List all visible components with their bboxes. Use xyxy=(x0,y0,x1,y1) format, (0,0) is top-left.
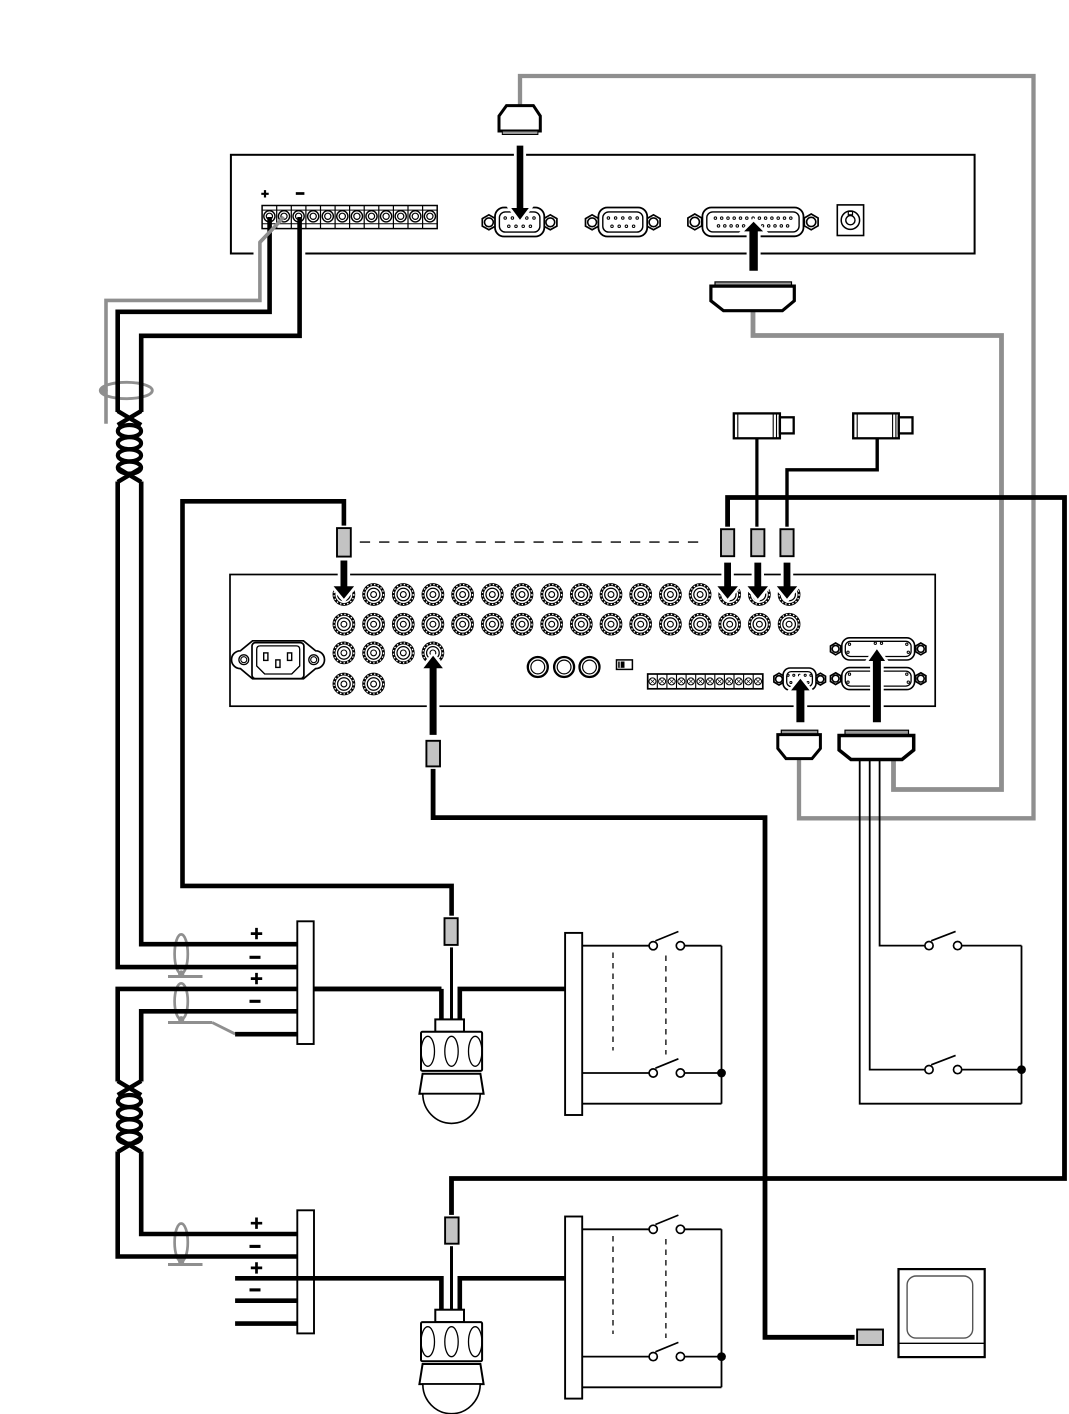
arrow: keyboard cable into recorder DB9 #1 xyxy=(511,146,529,220)
camera A (box camera) xyxy=(734,413,794,438)
recorder DB9 connector #2 xyxy=(598,208,647,237)
label + terminal block 2 row 1 xyxy=(251,1218,262,1229)
alarm box 3 dashed continuation lines xyxy=(612,1236,614,1334)
wire: right branch from camera 2 to alarm box 3 xyxy=(460,1278,565,1311)
label - terminal block 2 row 2 xyxy=(250,1245,261,1248)
hex standoff right of mux DB25 #1 xyxy=(916,643,926,655)
hex standoff left of mux DB25 #1 xyxy=(831,643,841,655)
mux BNC monitor row 3 (4 jacks) xyxy=(334,643,443,663)
data pair left wire down to terminal block 1 '-' xyxy=(118,482,298,968)
arrow: camera A video into mux BNC input 15 xyxy=(748,563,769,599)
camera 1 data branch down into dome camera 1 xyxy=(439,989,444,1022)
gray cable: recorder DB9 to multiplexer DB9 hood xyxy=(520,76,1034,818)
alarm box 3 wire row 2 xyxy=(582,1356,717,1358)
hex standoff right of mux DB25 #2 xyxy=(916,673,926,685)
junction dot alarm box 1 xyxy=(717,1069,726,1078)
label - terminal block 1 row 2 xyxy=(250,956,261,959)
BNC plug at mux input 1 xyxy=(337,528,351,557)
dome camera 2 pigtail below plug xyxy=(450,1243,453,1311)
hex standoff right of recorder DB25 xyxy=(804,214,818,230)
BNC plug at mux monitor-out xyxy=(426,741,440,767)
dome PTZ camera 2 xyxy=(419,1310,483,1414)
alarm switch 2-1 (dry contact) xyxy=(925,931,962,949)
mux DB9 connector (RS-232) xyxy=(783,668,816,690)
junction dot alarm group 2 xyxy=(1017,1065,1026,1074)
camera B video wire down to plug 16 xyxy=(787,438,877,530)
connector hood on keyboard cable (above recorder DB9 #1) xyxy=(499,106,540,135)
BNC plug at mux input 15 xyxy=(751,529,764,556)
terminal block 2 row 5 stub xyxy=(235,1321,297,1326)
terminal block 2 row 3 wire to camera 2 xyxy=(235,1278,441,1311)
recorder DB25 connector xyxy=(702,208,803,237)
arrow: cable into recorder DB25 xyxy=(744,222,763,271)
cable ring on data pair at terminal block 2 xyxy=(168,1224,203,1265)
cable ring on data pair at terminal block 1 (upper pair) xyxy=(168,934,203,976)
alarm box 1 common return xyxy=(582,1103,721,1105)
arrow: cable into mux DB9 xyxy=(791,679,810,723)
mux termination switch xyxy=(617,660,633,670)
connector hood below mux DB25 #1 (alarm cable) xyxy=(839,730,914,759)
alarm ribbon wire 3 (common) from DB25 hood xyxy=(860,759,1022,1104)
lower data pair right wire to terminal block 2 '+' xyxy=(141,1152,297,1235)
alarm switch 3-2 (dry contact) xyxy=(649,1342,684,1360)
mux screw terminal strip xyxy=(648,674,763,689)
video cable: mux BNC input 1 to dome camera 1 xyxy=(183,501,452,919)
hex standoff left of recorder DB9 #2 xyxy=(586,215,599,230)
hex standoff left of recorder DB9 #1 xyxy=(482,215,495,230)
wire: data line through block 1 to alarm box 1 xyxy=(314,987,442,992)
label + terminal block 2 row 3 xyxy=(251,1262,262,1273)
cable ring on data pair at terminal block 1 (lower pair) xyxy=(168,983,212,1022)
recorder DC power jack xyxy=(837,205,863,236)
mux IEC mains power inlet xyxy=(232,641,325,679)
alarm box 1 wire row 2 xyxy=(582,1072,717,1074)
gray shield drain wire from recorder terminal 2 xyxy=(106,217,284,424)
monitor video cable from mux BNC monitor-out xyxy=(433,766,858,1338)
wire: right branch from camera 1 to alarm box 1 xyxy=(460,989,565,1022)
alarm ribbon wire 1 from DB25 hood to alarm switch row 1 xyxy=(880,759,926,946)
hex standoff left of mux DB25 #2 xyxy=(831,673,841,685)
label - above recorder terminal 3 xyxy=(296,192,305,195)
dome camera 1 pigtail below plug xyxy=(450,945,453,1023)
data wire from recorder terminal 3 (-) down-left xyxy=(141,217,299,412)
label + terminal block 1 row 3 xyxy=(251,973,262,984)
BNC plug at mux input 16 xyxy=(780,529,793,556)
label - terminal block 2 row 4 xyxy=(250,1288,261,1291)
alarm switch 3-1 (dry contact) xyxy=(649,1215,684,1233)
gray shield wire over terminal 2 xyxy=(260,217,284,242)
multiplexer rear-panel box xyxy=(230,575,935,707)
mux BNC row 4 (2 jacks) xyxy=(334,674,384,694)
alarm box 1 dashed continuation lines xyxy=(612,953,614,1051)
BNC plug above dome camera 1 xyxy=(445,918,458,945)
video monitor xyxy=(899,1269,985,1357)
hex standoff right of recorder DB9 #2 xyxy=(647,215,660,230)
twisted pair symbol (upper) xyxy=(118,411,142,482)
video cable: mux BNC input 14 to dome camera 2 (long loop) xyxy=(452,498,1065,1219)
arrow: camera 1 video into mux BNC input 1 xyxy=(334,561,355,599)
BNC plug above dome camera 2 xyxy=(445,1217,459,1243)
alarm switch 2-2 (dry contact) xyxy=(925,1055,962,1073)
dome PTZ camera 1 xyxy=(419,1019,483,1123)
hex standoff right of recorder DB9 #1 xyxy=(544,215,557,230)
BNC plug at mux input 14 xyxy=(721,529,734,556)
mux BNC video loop-out row 2 (16 jacks) xyxy=(334,614,799,634)
alarm box 1 connector bar xyxy=(565,933,582,1115)
shield drain diagonal into terminal block 1 wire 5 xyxy=(212,1023,235,1034)
BNC plug at monitor xyxy=(857,1330,883,1346)
mux DB25 connector #2 xyxy=(842,668,915,690)
hex standoff right of mux DB9 xyxy=(815,673,825,685)
alarm group 2 right-side return wires xyxy=(962,946,1022,1104)
data wire from terminal block 1 '+' (row 3) down to twisted pair (lower) xyxy=(118,989,442,1082)
label - terminal block 1 row 4 xyxy=(250,1000,261,1003)
recorder unit rear-panel box xyxy=(231,155,975,254)
arrow: camera B video into mux BNC input 16 xyxy=(777,563,797,599)
arrow: video into mux BNC input 14 xyxy=(717,563,738,599)
data pair right wire down to terminal block 1 '+' xyxy=(141,482,297,945)
gray cable: recorder DB25 hood to multiplexer DB25 hood xyxy=(753,311,1002,790)
label + terminal block 1 row 1 xyxy=(251,928,262,939)
mux BNC video input row 1 (16 jacks) xyxy=(334,585,799,605)
data wire from recorder terminal 1 (+) down-left xyxy=(118,217,270,412)
gap in recorder box bottom edge for terminal wires xyxy=(254,251,306,257)
alarm switch 1-2 (dry contact) xyxy=(649,1059,684,1077)
arrow: alarm cable into mux DB25 #1 xyxy=(869,649,886,722)
arrow: monitor cable into mux monitor-out BNC xyxy=(423,656,443,735)
dashed cable-route line above mux xyxy=(360,541,701,543)
camera B (box camera) xyxy=(853,413,912,438)
hex standoff left of recorder DB25 xyxy=(688,214,702,230)
connector hood below recorder DB25 xyxy=(711,282,794,311)
terminal block 2 bar xyxy=(297,1210,314,1333)
cable loop ring around twisted pair at top xyxy=(100,382,152,398)
lower data pair left wire to terminal block 2 '-' xyxy=(118,1152,298,1257)
label + above recorder terminal 1 xyxy=(261,190,268,197)
recorder screw terminal strip xyxy=(262,206,437,229)
alarm box 1 wire row 1 xyxy=(582,946,721,1104)
data wire from terminal block 1 '-' (row 4) down xyxy=(141,1011,297,1081)
alarm ribbon wire 2 from DB25 hood to alarm switch row 2 xyxy=(870,759,926,1070)
terminal block 1 bar xyxy=(297,921,313,1044)
mux three aux jacks xyxy=(528,657,600,677)
twisted pair symbol (lower) xyxy=(118,1081,142,1152)
alarm box 3 connector bar xyxy=(565,1217,582,1399)
junction dot alarm box 3 xyxy=(717,1352,726,1361)
mux DB25 connector #1 (alarm I/O) xyxy=(842,638,915,660)
alarm switch 1-1 (dry contact) xyxy=(649,932,684,950)
camera A video wire down to plug 15 xyxy=(755,438,758,530)
hex standoff left of mux DB9 xyxy=(774,673,784,685)
alarm box 3 wire row 1 xyxy=(582,1229,721,1387)
terminal block 2 row 4 stub xyxy=(235,1298,297,1303)
terminal block 1 wire 5 (shield) xyxy=(235,1032,297,1037)
connector hood below mux DB9 xyxy=(778,730,821,758)
alarm box 3 common return xyxy=(582,1386,721,1388)
recorder DB9 connector #1 (keyboard) xyxy=(495,208,544,237)
